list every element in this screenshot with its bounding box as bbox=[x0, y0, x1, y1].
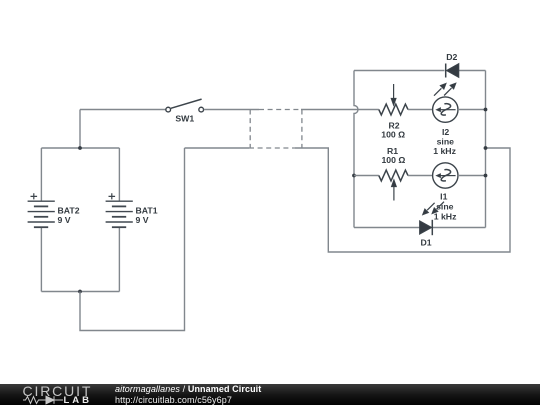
wire R1 to I1 bbox=[408, 175, 433, 177]
junction dot left edge row R1 bbox=[352, 174, 356, 178]
battery BAT2 leads bbox=[40, 148, 42, 292]
junction dot battery top rail bbox=[78, 146, 82, 150]
svg-text:100 Ω: 100 Ω bbox=[381, 155, 405, 165]
battery BAT1 bbox=[106, 201, 133, 227]
wire from dashed region to R2 (passes under hop) bbox=[301, 109, 379, 111]
svg-text:BAT2: BAT2 bbox=[58, 205, 80, 215]
plus sign BAT2 bbox=[31, 193, 38, 199]
photodiode D1 light arrows bbox=[423, 202, 445, 215]
svg-text:I1: I1 bbox=[440, 191, 447, 201]
svg-text:D2: D2 bbox=[446, 52, 457, 62]
wire bottom loop bbox=[80, 148, 185, 331]
svg-text:1 kHz: 1 kHz bbox=[434, 212, 457, 222]
battery bottom rail bbox=[41, 291, 119, 293]
svg-text:100 Ω: 100 Ω bbox=[381, 130, 405, 140]
wire top from left column to SW1 bbox=[80, 109, 166, 111]
CircuitLab logo mini schematic bbox=[23, 395, 69, 405]
box bottom edge wires around D1 bbox=[354, 227, 486, 229]
battery BAT2 bbox=[28, 201, 55, 227]
photodiode D2 bbox=[446, 64, 459, 78]
CircuitLab logo LAB bbox=[64, 395, 93, 406]
resistor R2 wiper arrow bbox=[391, 84, 396, 106]
svg-text:BAT1: BAT1 bbox=[136, 205, 158, 215]
plus sign BAT1 bbox=[109, 193, 116, 199]
wire dashed region to down corner bbox=[295, 148, 510, 252]
svg-text:SW1: SW1 bbox=[175, 113, 194, 123]
wire from SW1 to dashed region bbox=[204, 109, 259, 111]
svg-text:9 V: 9 V bbox=[136, 215, 149, 225]
svg-text:D1: D1 bbox=[421, 237, 432, 247]
photodiode D1 bbox=[420, 220, 433, 235]
junction dot battery bottom rail bbox=[78, 290, 82, 294]
svg-text:I2: I2 bbox=[442, 127, 449, 137]
svg-text:9 V: 9 V bbox=[58, 215, 71, 225]
footer title line bbox=[115, 384, 261, 395]
right circuit box right edge bbox=[485, 71, 487, 228]
resistor R2 bbox=[379, 104, 408, 115]
right circuit box left edge with hop over wire bbox=[354, 71, 358, 228]
junction dot right edge row I2 bbox=[484, 108, 488, 112]
box top edge wires around D2 bbox=[354, 70, 486, 72]
photodiode D2 light arrows bbox=[434, 83, 456, 96]
wire R2 to I2 bbox=[408, 109, 433, 111]
resistor R1 bbox=[379, 170, 408, 181]
junction dot right edge row I1 bbox=[484, 174, 488, 178]
battery top rail bbox=[41, 147, 119, 149]
wire I1 to right edge bbox=[458, 175, 486, 177]
svg-text:1 kHz: 1 kHz bbox=[433, 146, 456, 156]
CircuitLab logo text bbox=[23, 385, 93, 397]
svg-text:sine: sine bbox=[437, 137, 455, 147]
battery BAT1 leads bbox=[118, 148, 120, 292]
junction dot right edge mid bbox=[484, 146, 488, 150]
wire vertical left column down to battery rail bbox=[79, 110, 81, 149]
dashed annotation box bbox=[249, 110, 302, 149]
wire I2 to right edge bbox=[458, 109, 486, 111]
wire left edge to R1 bbox=[354, 175, 379, 177]
current source I1 bbox=[433, 163, 458, 188]
wire battery rail to dashed region bbox=[185, 147, 250, 149]
footer bar bbox=[0, 384, 540, 405]
current source I2 bbox=[433, 97, 458, 122]
switch SW1 bbox=[166, 99, 204, 112]
resistor R1 wiper arrow bbox=[391, 179, 396, 200]
footer url line bbox=[115, 395, 232, 406]
